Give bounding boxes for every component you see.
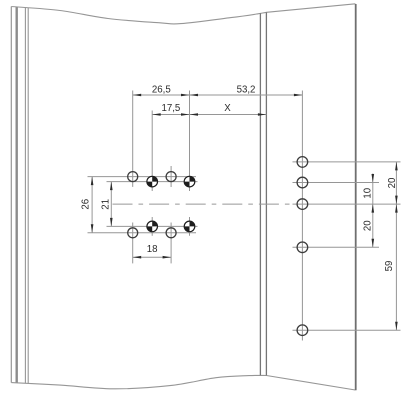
extension line through top-left screw hole — [132, 91, 134, 187]
arrow 53,2 left — [190, 94, 199, 97]
cabinet front edge line left — [259, 13, 261, 375]
datum hole bottom-right — [184, 221, 195, 232]
arrow 21 top — [110, 182, 113, 191]
door front face edge line — [10, 7, 12, 383]
door and cabinet bottom edge — [11, 375, 355, 390]
dimension line row 2 (17,5 and X) — [152, 114, 266, 116]
arrow 21 bottom — [110, 218, 113, 227]
svg-text:10: 10 — [362, 187, 373, 198]
arrow 59 top — [395, 204, 398, 213]
datum hole top-left — [147, 176, 158, 187]
side panel hole 2 — [297, 177, 308, 188]
arrow 18 left — [133, 256, 142, 259]
door and cabinet top edge — [11, 4, 355, 24]
side panel hole 1 extension line — [293, 161, 401, 163]
datum hole bottom-left — [147, 221, 158, 232]
svg-text:26: 26 — [81, 199, 92, 210]
svg-text:18: 18 — [147, 244, 158, 255]
crosshair top-right screw hole — [170, 166, 172, 187]
arrow 53,2 right — [294, 94, 303, 97]
centerline solid through side panel hole row — [293, 203, 401, 205]
screw hole top-left — [128, 172, 138, 182]
inner dimension line (10 and 20) — [372, 174, 374, 248]
arrow 26 top — [91, 177, 94, 186]
dimension line 21 vertical — [110, 182, 112, 227]
door edge inner profile line — [24, 8, 26, 384]
arrow 26,5 right — [181, 94, 190, 97]
top datum hole row centerline — [107, 181, 198, 183]
crosshair bottom-right datum hole — [189, 217, 191, 236]
arrow 26,5 left — [133, 94, 142, 97]
bottom screw hole row centerline — [88, 232, 197, 234]
side panel hole 4 extension line — [293, 246, 380, 248]
arrow 10 bottom / 20 top — [372, 204, 375, 213]
arrow 26 bottom — [91, 224, 94, 233]
side panel hole 5 — [297, 325, 308, 336]
door back face edge line — [27, 8, 29, 384]
arrow 20 outer top — [395, 162, 398, 171]
svg-text:20: 20 — [387, 177, 398, 188]
arrow 10 top outside — [372, 174, 375, 183]
datum hole top-right — [184, 176, 195, 187]
crosshair bottom-left datum hole — [151, 217, 153, 236]
extension line through top-left datum hole — [151, 111, 153, 192]
svg-text:59: 59 — [384, 261, 395, 272]
svg-text:21: 21 — [100, 199, 111, 210]
dimension line 26 vertical — [91, 177, 93, 233]
svg-text:17,5: 17,5 — [161, 103, 180, 114]
dimension line 18 — [133, 256, 171, 258]
side panel hole 2 extension line — [293, 182, 380, 184]
arrow X right — [258, 113, 267, 116]
door edge thick profile line — [16, 7, 18, 383]
side panel hole 3 — [297, 199, 308, 210]
screw hole bottom-right — [166, 228, 176, 238]
crosshair bottom-left screw hole — [132, 223, 134, 264]
arrow 18 right — [163, 256, 172, 259]
screw hole top-right — [166, 172, 176, 182]
cabinet front edge line right — [265, 12, 267, 375]
svg-text:X: X — [224, 103, 231, 114]
svg-text:26,5: 26,5 — [152, 85, 171, 96]
arrow 59 bottom — [395, 322, 398, 331]
side panel hole 4 — [297, 242, 308, 253]
side panel hole 1 — [297, 157, 308, 168]
side panel hole 5 extension line — [293, 329, 401, 331]
crosshair bottom-right screw hole — [170, 223, 172, 264]
outer dimension line (20 and 59) — [395, 162, 397, 330]
arrow 17,5 left — [152, 113, 161, 116]
screw hole bottom-left — [128, 228, 138, 238]
arrow 17,5 right — [181, 113, 190, 116]
svg-text:53,2: 53,2 — [237, 85, 256, 96]
dimension line row 1 (26,5 and 53,2) — [133, 94, 303, 96]
extension line through top-right datum hole — [189, 91, 191, 192]
arrow 20 bottom — [372, 239, 375, 248]
bottom datum hole row centerline — [107, 225, 198, 227]
side panel hole column line — [301, 91, 303, 341]
arrow 20 outer bottom — [395, 196, 398, 205]
arrow X left — [190, 113, 199, 116]
cabinet side panel right edge — [355, 4, 357, 390]
top screw hole row centerline — [88, 176, 197, 178]
svg-text:20: 20 — [362, 220, 373, 231]
horizontal centerline dash-dot — [113, 203, 297, 205]
